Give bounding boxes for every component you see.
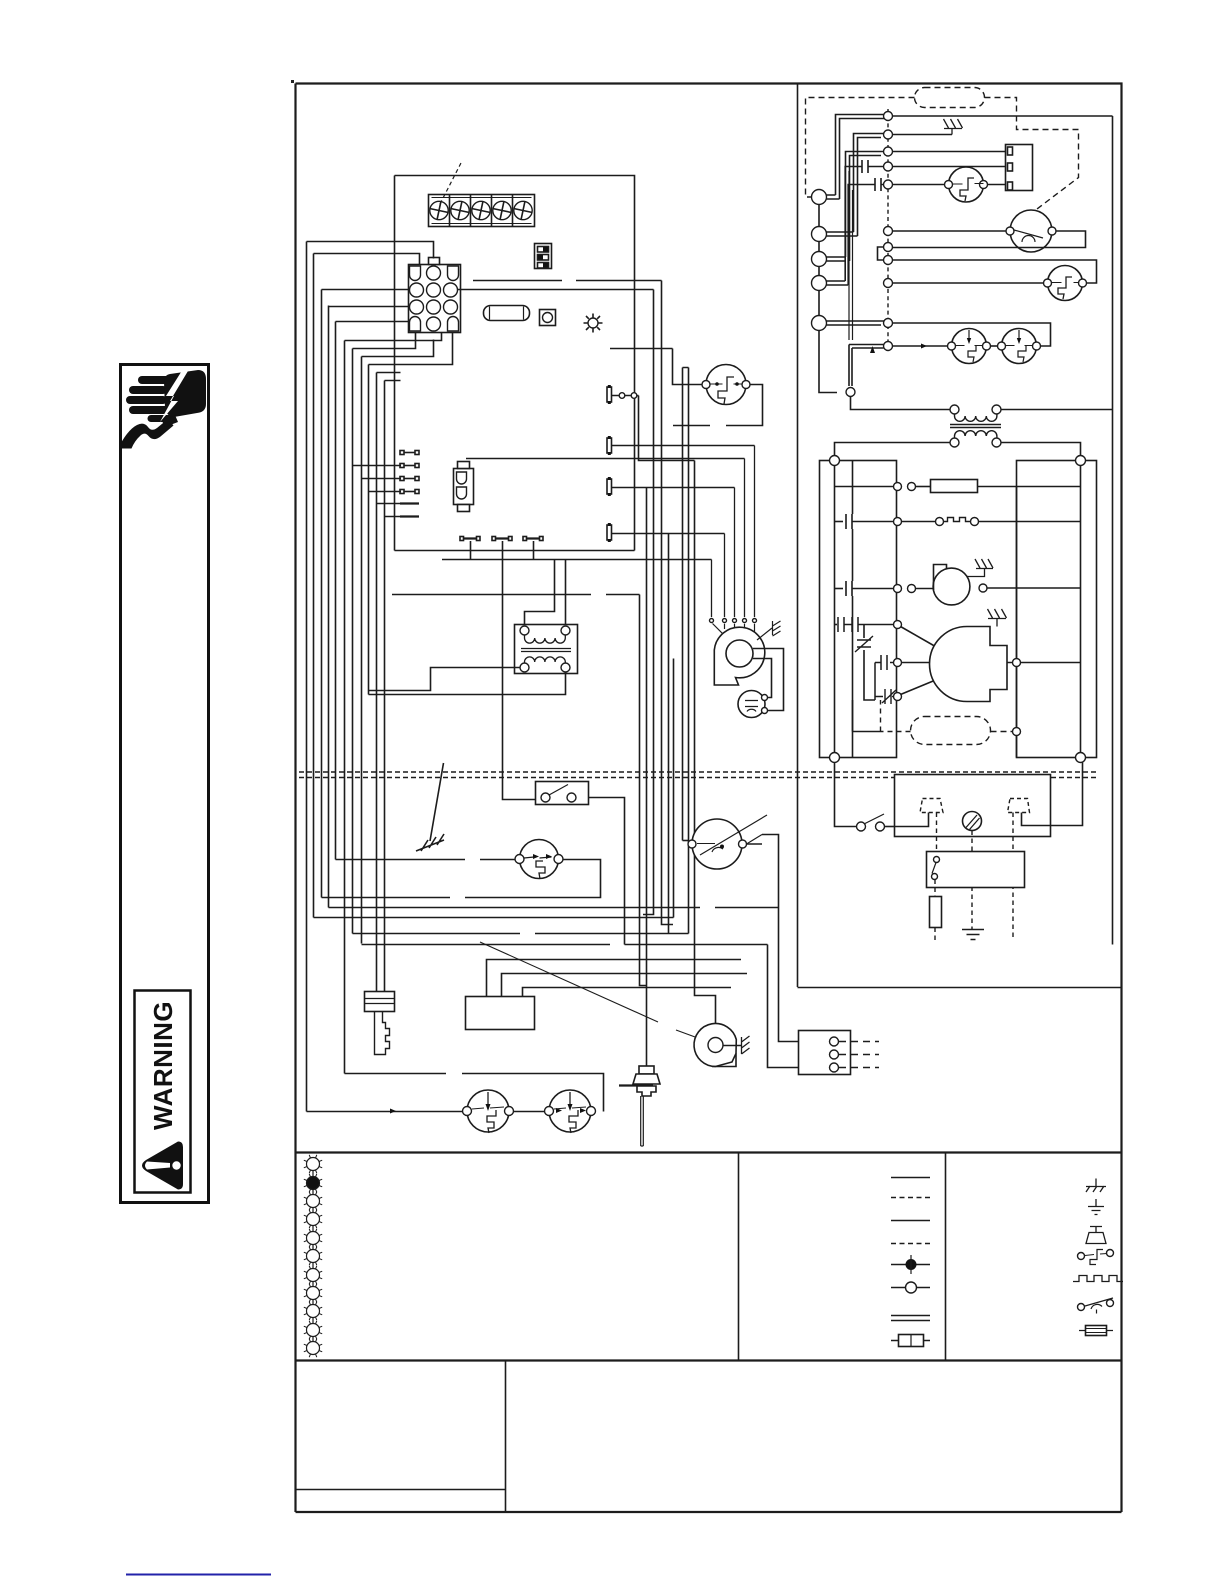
legend heater element [1073,1276,1123,1282]
flame sensor switch FS [520,840,559,879]
bundle vertical 646 igniter feed [646,488,648,1067]
main blower hub [726,640,753,667]
junction circle [846,388,855,397]
inducer blower symbol [933,568,970,605]
fuse drop [934,880,936,897]
legend line dashed 1 [891,1197,930,1199]
wire from slot1 down [470,541,472,560]
legend plug [1086,1226,1106,1244]
low-voltage separator dashed pair [299,772,1097,778]
transformer T1 feed wires [525,560,566,625]
pressure switch PS3 [706,365,746,405]
left rail box [820,461,897,758]
control board outline [395,176,635,551]
wire bus vertical 7 [352,349,354,934]
limit switch LS1 [952,329,987,364]
run y907 [329,907,779,909]
exclamation (white, rotated) [145,1162,170,1170]
inducer ground [723,1045,741,1047]
T2 primary right wire [1001,409,1113,411]
screw terminals [428,200,533,221]
rollout switch RS2 [549,1090,591,1132]
rung 4 caps to motor [835,624,838,626]
limit switch LS2 [1002,329,1037,364]
main blower motor leads [712,446,755,618]
chassis ground rung3 [967,559,994,577]
legend line solid 2 [891,1220,930,1222]
T1 secondary right wire [369,672,566,695]
title block bottom [296,1511,1122,1513]
transformer T2 [950,405,959,414]
dashed drop right [1012,813,1014,939]
dashed drop left [936,813,938,852]
T2 secondary left wire [835,443,951,457]
terminal strip TB1 [429,195,535,227]
blower chassis ground [757,628,772,640]
board bottom slots [462,537,541,539]
interlock switch [857,822,866,831]
rollout switch RS1 [467,1090,509,1132]
wire bus vertical 8 [361,357,363,944]
limit left wire [683,840,689,842]
bundle vertical 673 [673,659,675,918]
door switch feed wire [503,541,536,800]
legend box top [296,1151,1122,1153]
run y933 [353,933,689,935]
warning triangle icon [142,1142,183,1190]
border dot [291,80,294,83]
3-pin feed drop [768,945,799,1068]
long run y559 [442,559,712,561]
warning label outer box [121,365,209,1203]
dashed connector bus [887,109,889,341]
right bus vertical [1112,116,1114,945]
legend line dashed 2 [891,1243,930,1245]
earth ground [962,930,984,940]
aux switch box [927,852,1025,888]
wire PS1 to terminal box [988,184,1006,186]
bundle vertical 694 inducer feed [695,461,716,1039]
legend marker 11 [307,1342,320,1355]
right rail bus [1080,465,1082,753]
chassis ground motor [988,609,1007,627]
legend fuse 2 [1079,1330,1113,1332]
bundle U pair [683,368,689,934]
ignition control box [1006,145,1033,191]
wire bus vertical 6 [344,341,346,1074]
legend divider 2 [945,1153,947,1361]
dashed pill left wires [881,700,911,732]
T1 primary terminals [520,626,529,635]
rollout loop upper [345,1074,604,1112]
legend double line [891,1316,930,1321]
wire y231 to blower motor [893,230,1010,232]
leader line to terminal strip [440,161,462,204]
pin wire 2 [611,445,755,447]
wire bus vertical 9 [368,365,370,695]
nested bracket wires to plug [827,115,885,200]
flame sensor right loop [322,860,601,898]
wire y184 to pressure switch [893,184,947,186]
run y348 [610,348,673,350]
blower motor BM [1010,210,1052,252]
T1 secondary coil [525,657,566,665]
dashed field wiring right [985,98,1079,213]
rung 2 heater [835,521,844,523]
limit switch main [692,819,742,869]
thermostat dashed pill [915,88,985,108]
2-pin connector P2 [454,469,474,505]
wire bus vertical 3 [321,290,323,898]
T1 secondary left wire [369,668,521,691]
cap pair rung mid [875,655,893,700]
legend marker 4 [307,1213,320,1226]
status LED [588,318,598,328]
legend chassis ground [1086,1179,1106,1193]
bus branch wires to board spades [353,466,402,517]
blower run capacitor [738,691,765,718]
bundle vertical 668 [668,534,670,934]
legend divider 1 [738,1153,740,1361]
wire y166 to terminal box [893,166,1006,168]
door switch box [536,782,589,805]
wire y151 to terminal box [893,151,1006,153]
chassis ground left [430,763,444,841]
relay outline (pill) [484,306,530,321]
wire bus vertical 5 [335,322,337,860]
connector circle A [812,190,827,205]
legend marker 3 [307,1195,320,1208]
coil terminal wire left [895,813,929,827]
dashed drop middle to earth ground [971,831,973,930]
pin wire 3 [611,487,735,489]
connector circle C [812,252,827,267]
hatched circle chain [312,1157,314,1354]
legend marker 2 [307,1177,320,1190]
capacitor feed wires [845,167,875,286]
shock hazard hand icon [121,370,206,449]
wire bus vertical 10 [376,373,378,992]
gas valve box [466,997,535,1030]
junction to transformer primary [851,397,951,410]
blower run cap wires [753,649,784,711]
PS3 return loop [673,385,763,426]
dashed pill right wire [991,731,1013,733]
left rail bus [834,465,836,753]
coil trapezoid left (dashed) [920,799,943,813]
coil trapezoid right (dashed) [1008,799,1030,813]
run y280 [473,280,662,282]
hatched circle solenoid [963,812,982,831]
board left spade terminals [400,451,419,517]
left bus segments [819,205,837,393]
title block divider vertical [505,1361,507,1513]
limit right wire [747,835,799,1042]
legend limit switch [1078,1304,1085,1311]
legend marker 6 [307,1250,320,1263]
legend box bottom [296,1359,1122,1361]
12-pin connector P1 [409,265,461,333]
main blower motor [930,627,1008,702]
wire y260 to PS2 [893,260,1097,283]
double wire to junction [849,345,884,387]
igniter HSI [639,1066,654,1074]
legend marker 1 [307,1158,320,1171]
wire y323 limit loop [893,323,1051,346]
legend marker 9 [307,1305,320,1318]
legend line solid 1 [891,1177,930,1179]
wire y134 to chassis ground [893,134,953,136]
motor return wire [893,231,1086,248]
outer border [296,84,1122,1513]
board right spade pins [607,387,612,402]
rollout link wire [514,1111,547,1113]
T1 secondary terminals [520,663,529,672]
svg-text:WARNING: WARNING [148,1001,178,1130]
box right wire up [1051,763,1083,826]
3-pin connector [799,1031,851,1075]
run y917 [314,917,674,919]
legend marker 7 [307,1269,320,1282]
disconnect plug [365,992,395,1012]
wire y116 to right bus [893,115,1113,117]
legend marker 8 [307,1287,320,1300]
pin wire 4 [611,533,725,535]
humidifier dashed pill [911,717,991,745]
connector circle B [812,227,827,242]
rung 1 resistor [835,486,894,488]
run cap vertical with slash [864,625,875,701]
transformer T1 box [515,625,578,674]
main blower scroll [714,627,764,685]
run y289 [458,289,654,291]
pressure switch PS1 [949,167,984,202]
WARNING inner box [135,991,191,1193]
capacitor C2 [875,178,884,191]
bundle vertical 672 ps feed [673,349,707,385]
door switch contacts [541,793,550,802]
legend fuse [891,1340,930,1342]
wire from slot3 down [533,541,535,560]
plug terminal circles [884,112,893,121]
lightning bolt (white) [160,369,188,422]
left rail down wire [835,763,857,827]
slashed cap lower [875,689,896,704]
rollout wire lower [307,1111,467,1113]
long run y594 [392,594,640,596]
bundle vertical 638 [639,396,695,461]
rung 3 inducer [835,588,844,590]
legend no-connection [891,1287,930,1289]
connector circle E [812,316,827,331]
pressure switch PS2 [1048,266,1083,301]
left rail bus 2 [852,461,854,758]
run y458 [466,458,745,460]
bundle vertical 639 [640,595,647,986]
motor right wire [1007,662,1081,664]
bus top feeds into connector [307,242,453,381]
legend junction dot [891,1264,930,1266]
bundle vertical 653 [643,290,654,915]
right rail box [1017,461,1097,758]
T2 secondary right wire [1001,443,1081,457]
right rail inner links [1016,487,1018,758]
T1 primary coil [525,635,566,643]
long vertical pair from caps [849,171,853,340]
capacitor C1 [862,160,884,173]
legend pressure switch [1078,1253,1085,1260]
wire bus vertical 4 [328,306,330,908]
coil terminal wire right [1022,813,1051,826]
bundle vertical 661 [662,281,674,925]
legend marker 10 [307,1324,320,1337]
pin wire 1 [611,395,639,397]
inducer motor [694,1024,736,1067]
title block left inner line [296,1489,506,1491]
blue footer line [126,1574,271,1576]
leader diagonal to inducer [480,942,706,1041]
legend marker 5 [307,1232,320,1245]
connector circle D [812,276,827,291]
wire bus vertical 1 [306,242,308,1112]
jumper bracket [878,247,884,260]
wire bus vertical 2 [313,254,315,918]
button with circle [540,310,556,326]
wire y346 left [893,345,948,347]
run y944 [362,944,768,946]
dashed field wiring left [806,98,915,198]
wire bus vertical 11 [384,381,386,992]
section divider vertical [797,84,799,988]
aux switch [934,857,940,863]
legend earth ground [1088,1199,1104,1215]
gas valve assembly box [895,775,1051,837]
right panel bottom line [798,987,1122,989]
DIP switch S1 [535,244,552,269]
door switch right wire [589,798,625,945]
limit link wire [991,345,998,347]
T1 core [521,649,571,652]
gas valve riser wires [487,960,748,997]
flame sensor left wire [336,859,516,861]
chassis ground top [944,119,963,135]
